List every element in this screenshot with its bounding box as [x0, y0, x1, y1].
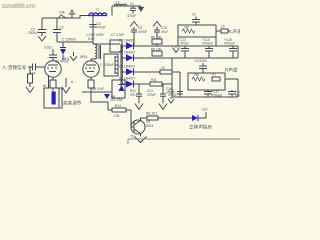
svg-text:R6 10K: R6 10K: [151, 48, 163, 52]
svg-text:470uF: 470uF: [147, 93, 156, 97]
svg-text:入:音频信号: 入:音频信号: [2, 64, 27, 71]
svg-text:立体声指示: 立体声指示: [189, 124, 212, 131]
svg-text:76: 76: [130, 135, 134, 139]
svg-text:12V: 12V: [202, 108, 209, 112]
LED D12: [192, 115, 198, 121]
ground: [73, 52, 75, 56]
wire: [57, 41, 93, 43]
zener D9: [62, 42, 64, 48]
inductor L2: [112, 5, 133, 7]
resistor R10: [160, 70, 172, 74]
wire top-left rail: [42, 16, 88, 19]
diode D2: [126, 54, 134, 61]
resistor R9: [182, 29, 195, 33]
svg-text:D3 1N4007: D3 1N4007: [119, 65, 135, 69]
svg-text:47K: 47K: [130, 93, 137, 97]
capacitor C1: [41, 18, 43, 30]
taps: [121, 45, 127, 47]
svg-text:L2: L2: [116, 1, 120, 5]
resistor R11: [150, 82, 162, 86]
capacitor C2: [56, 18, 58, 30]
svg-text:10 2200: 10 2200: [195, 59, 207, 63]
ground: [38, 36, 46, 41]
vertical feed: [171, 58, 173, 97]
wire base feed: [91, 92, 108, 110]
wire loop: [110, 40, 122, 52]
wire branch1: [133, 45, 238, 47]
box drops: [177, 37, 179, 46]
svg-text:470uF: 470uF: [166, 91, 175, 95]
svg-text:W: W: [43, 84, 46, 88]
diode D3: [126, 68, 134, 75]
svg-text:L声道: L声道: [230, 28, 240, 35]
svg-text:R声道: R声道: [225, 67, 238, 74]
svg-text:C 2200uF: C 2200uF: [62, 38, 76, 42]
diode D10: [104, 94, 110, 99]
capacitor C18: [207, 90, 209, 92]
ground: [135, 137, 147, 143]
resistor R5: [152, 39, 162, 44]
svg-text:6N11: 6N11: [62, 57, 70, 61]
svg-text:47uF: 47uF: [161, 30, 168, 34]
resistor R12: [192, 77, 205, 81]
resistor R14: [108, 109, 131, 111]
heater box: [112, 80, 125, 98]
wire bias rail: [82, 91, 112, 93]
ground arrow: [175, 46, 177, 48]
svg-text:C7 4.7uF: C7 4.7uF: [111, 33, 124, 37]
link rails right: [237, 46, 239, 58]
transistor Q1: [131, 120, 145, 134]
svg-text:C8 47uF: C8 47uF: [92, 87, 104, 91]
capacitor C in: [28, 66, 33, 68]
ground GND top: [71, 14, 73, 18]
wire collector rail: [141, 117, 148, 119]
L channel box: [178, 25, 216, 37]
capacitor C19: [231, 90, 233, 92]
inductor L1: [88, 15, 107, 17]
svg-text:R5 10K: R5 10K: [151, 36, 163, 40]
svg-text:2W: 2W: [194, 73, 199, 77]
output R: [212, 78, 220, 80]
svg-text:L1: L1: [96, 8, 100, 12]
svg-text:470uF: 470uF: [127, 14, 136, 18]
tube V1: [45, 61, 61, 77]
svg-text:C 2200uF: C 2200uF: [100, 63, 114, 67]
svg-text:4700uF: 4700uF: [202, 42, 213, 46]
resistor Rk1: [52, 77, 54, 80]
svg-text:4.7: 4.7: [212, 73, 217, 77]
svg-text:bzw899.cm: bzw899.cm: [2, 3, 35, 10]
ground: [170, 97, 172, 99]
svg-text:10: 10: [130, 2, 134, 6]
svg-text:9013: 9013: [146, 124, 153, 128]
table top border: [128, 138, 240, 140]
capacitor C13: [184, 46, 186, 49]
svg-text:4700uF: 4700uF: [224, 42, 235, 46]
svg-text:10A: 10A: [59, 11, 66, 15]
svg-text:R14: R14: [115, 104, 121, 108]
svg-text:4700uF: 4700uF: [212, 94, 223, 98]
pot W1: [44, 88, 62, 108]
capacitor top of V1: [52, 58, 54, 61]
capacitor C21: [138, 84, 140, 94]
capacitor C9 up: [133, 32, 135, 46]
resistor RV: [29, 67, 31, 74]
capacitor C3: [92, 16, 94, 45]
transformer T1: [104, 54, 118, 76]
R channel box: [188, 73, 225, 90]
output L: [216, 30, 221, 32]
svg-text:470uF: 470uF: [138, 30, 147, 34]
svg-text:高音调节: 高音调节: [63, 100, 82, 107]
svg-text:D1 1N4007: D1 1N4007: [119, 39, 135, 43]
svg-text:470uF: 470uF: [97, 26, 106, 30]
ground: [26, 87, 34, 93]
wire branch4: [133, 83, 172, 85]
svg-text:D2 1N4007: D2 1N4007: [119, 51, 135, 55]
svg-text:W1 201: W1 201: [146, 112, 157, 116]
wire riser: [111, 6, 113, 16]
svg-text:C2: C2: [60, 26, 64, 30]
svg-text:470uF: 470uF: [180, 42, 189, 46]
tube V2: [83, 61, 99, 77]
svg-text:6P14: 6P14: [80, 55, 88, 59]
svg-text:2W: 2W: [184, 26, 189, 30]
resistor R6: [152, 51, 162, 56]
diode D4: [126, 81, 134, 88]
svg-text:D4 1N4007: D4 1N4007: [119, 77, 135, 81]
resistor Rk2: [90, 77, 92, 80]
capacitor C10 up: [156, 32, 158, 46]
capacitor C22: [162, 84, 164, 94]
resistor W2: [147, 116, 158, 120]
capacitor C6: [132, 6, 134, 8]
secondary winding: [120, 44, 122, 86]
diode D1: [126, 42, 134, 49]
wire branch2: [133, 57, 238, 59]
svg-text:2200uF: 2200uF: [28, 31, 39, 35]
svg-text:L5: L5: [221, 25, 225, 29]
switch K1: [58, 15, 66, 18]
svg-text:4700uF: 4700uF: [235, 94, 240, 98]
capacitor C15: [232, 46, 234, 49]
capacitor C14: [208, 46, 210, 49]
svg-text:R11: R11: [151, 78, 157, 82]
svg-text:6.3V: 6.3V: [88, 37, 95, 41]
capacitor C16: [177, 91, 183, 93]
choke L3: [93, 43, 120, 45]
svg-text:10: 10: [192, 13, 196, 17]
ground: [133, 5, 141, 7]
svg-text:0.022: 0.022: [44, 46, 52, 50]
svg-text:10K: 10K: [114, 114, 121, 118]
diode D11: [119, 84, 125, 86]
wire branch3: [133, 71, 180, 73]
bottom rail: [172, 96, 238, 98]
ground mid: [65, 78, 67, 87]
svg-text:24V 10A: 24V 10A: [110, 98, 123, 102]
